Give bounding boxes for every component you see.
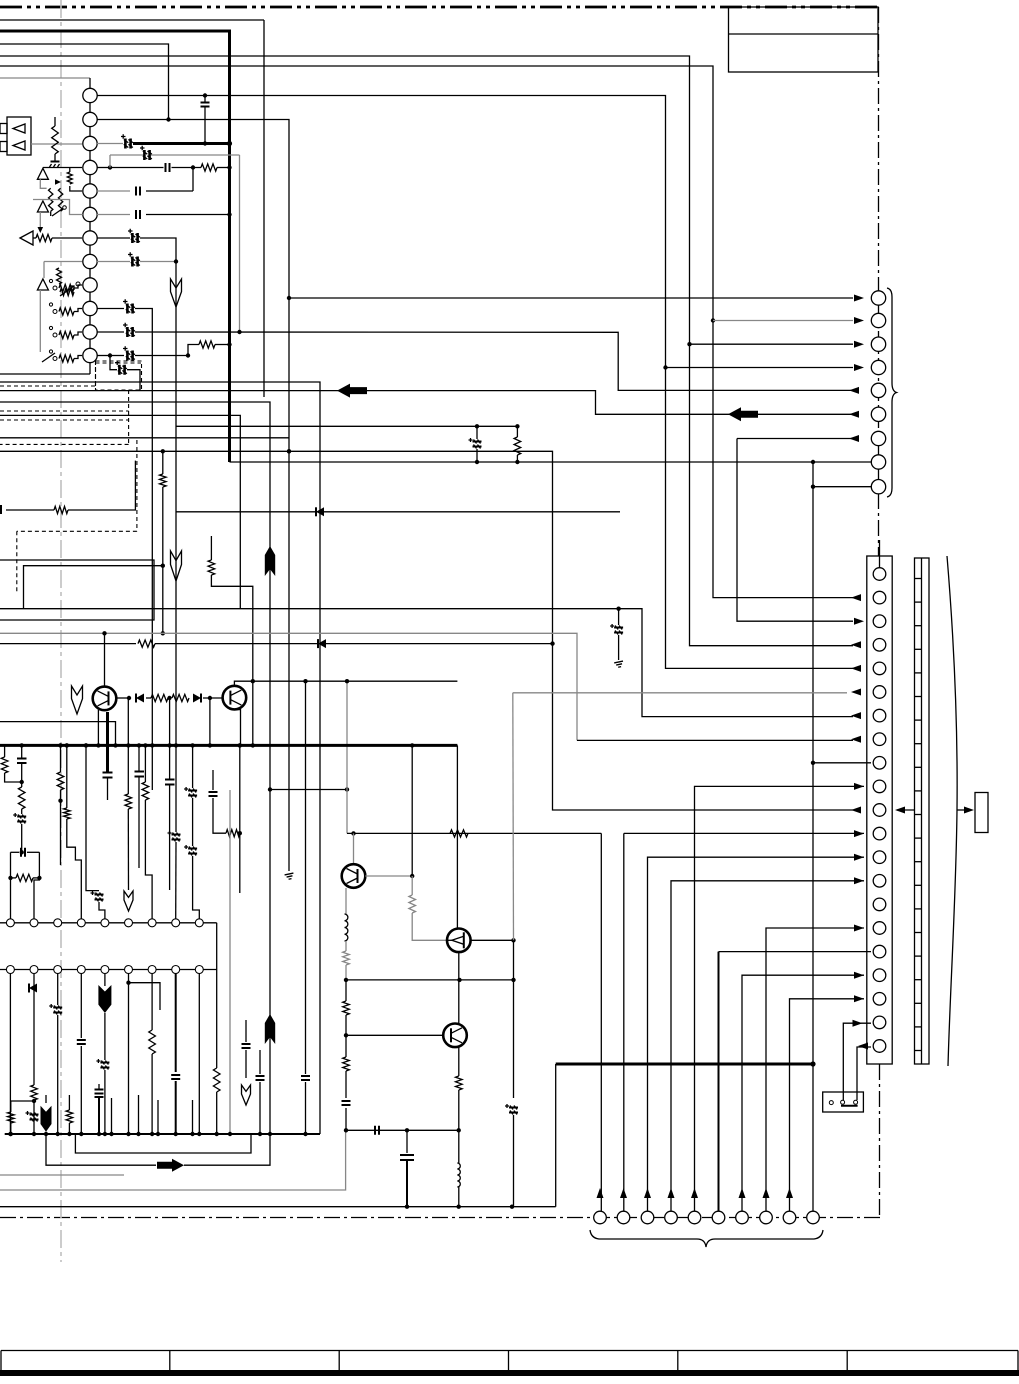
wire CN1 pin3 gray (97, 143, 123, 145)
connector CN2 pin1 (873, 568, 886, 581)
wire (33, 877, 39, 879)
wire to IC pin4 (67, 819, 82, 919)
capacitor C14 electrolytic (618, 609, 620, 625)
resistor R4 (49, 188, 53, 211)
flow arrow up A2 (265, 1014, 275, 1044)
border frame right lower dash-dot (879, 1064, 881, 1218)
wire (169, 785, 171, 891)
wiper gray T3 down (39, 212, 41, 229)
resistor R18 (57, 772, 64, 790)
wire arrow to K1 (957, 809, 966, 811)
resistor R30 (343, 1001, 350, 1015)
wire (33, 985, 35, 1085)
capacitor C36 (375, 1126, 379, 1135)
capacitor C27 electrolytic (96, 1059, 109, 1070)
connector CN2 pin19 (873, 993, 886, 1006)
wire net-C to pin2 (0, 44, 169, 120)
arrowhead up (668, 1188, 675, 1198)
wire (21, 809, 23, 814)
headphone jack J1 (0, 117, 82, 155)
wire (151, 1054, 153, 1134)
wire x513 vertical (513, 940, 515, 1098)
wire (68, 1095, 70, 1110)
wire y721 (0, 722, 116, 746)
switch wiper SW1 (42, 353, 55, 362)
wire y510 corner up (68, 461, 135, 510)
boundary dashed box small (96, 361, 142, 390)
diode D5 (318, 639, 326, 648)
resistor R34 (138, 640, 155, 647)
wire (4, 745, 6, 757)
wire U1 pin6 down (128, 974, 130, 983)
wire gray y1175 (0, 1174, 124, 1176)
wire (305, 1082, 307, 1134)
wire y510 (6, 509, 54, 511)
wire CN1 pin11 (97, 331, 124, 333)
transistor Q1 (93, 687, 117, 711)
centerline dash-dot gray (60, 0, 62, 1262)
wire CN1 pin7 (97, 237, 130, 239)
capacitor C23 electrolytic (184, 845, 197, 856)
wire to Q4 base (412, 913, 447, 940)
resistor R15 (1, 757, 8, 773)
wire x158 (157, 1100, 159, 1134)
wire Q1 emitter thick (106, 712, 109, 772)
capacitor C35 electrolytic (505, 1104, 518, 1115)
resistor R35 (66, 1110, 73, 1123)
arrowhead up (620, 1188, 627, 1198)
wire x813 vertical (812, 462, 814, 1064)
switch row 2 (53, 310, 57, 314)
wire (175, 745, 177, 832)
wire (104, 1070, 106, 1134)
wire to CN2 pin12 (624, 832, 864, 834)
IC U1 bottom pin7 (148, 966, 156, 974)
IC U1 top pin2 (30, 919, 38, 927)
diode D4 (316, 507, 324, 516)
flow arrow down A8 (41, 1106, 52, 1132)
wire gray x230 (229, 790, 231, 1134)
wire (476, 449, 478, 462)
wire CN5 pin7 to CN2 pin18 (742, 975, 864, 1211)
wire to CN3 pin1 (289, 297, 853, 299)
wire Q4 to x513 (471, 939, 514, 941)
capacitor C22 electrolytic (168, 831, 181, 842)
connector CN5 pin8 (760, 1211, 773, 1224)
capacitor C20 electrolytic (91, 891, 104, 902)
wire CN1 pin10 (97, 308, 124, 310)
wire CN3 pin7 (737, 438, 853, 440)
connector CN2 pin7 (873, 709, 886, 722)
diode D3 (29, 984, 37, 993)
jumper block JP1 (823, 1092, 864, 1112)
ground bus y1134 (5, 1133, 320, 1135)
wire y560 y620 loop (0, 560, 154, 620)
inductor L2 (457, 1163, 460, 1187)
wire (21, 824, 23, 852)
wire col x128 (127, 698, 129, 794)
wire JP1 to CN2 pin21 (857, 1047, 871, 1100)
flow arrow up A1 (265, 546, 275, 576)
arrowhead up (644, 1188, 651, 1198)
arrowhead up (739, 1188, 746, 1198)
wire (33, 237, 36, 239)
wire y979 (346, 979, 514, 981)
wire net-A horizontal (0, 19, 264, 21)
wire y426 (176, 425, 517, 427)
connector CN3 pin9 (871, 480, 885, 494)
transistor Q5 (443, 1024, 467, 1048)
wire y382 to x320 vertical (0, 382, 320, 1134)
pot P2 (60, 286, 74, 296)
wire CN5 pin6 to CN2 pin17 thick (718, 952, 720, 1211)
wire to CN2 pin9 (813, 762, 871, 764)
capacitor C13 (0, 505, 2, 514)
wire CN5 pin9 to CN2 pin19 (790, 999, 865, 1211)
arrowhead right (964, 807, 974, 814)
wire CN1 pin8 gray (97, 261, 130, 263)
IC U1 bottom pin2 (30, 966, 38, 974)
connector CN3 pin7 (871, 431, 885, 445)
arrowhead up (691, 1188, 698, 1198)
ground G3 (285, 873, 295, 880)
border frame top dash-dot (0, 6, 879, 9)
connector CN3 pin3 (871, 337, 885, 351)
wire (86, 745, 99, 890)
IC U1 top pin8 (172, 919, 180, 927)
connector CN1 bottom lead (0, 373, 90, 375)
wire x623 bottom pin2 (623, 833, 625, 1211)
wire Q5 base (346, 1034, 443, 1036)
capacitor C25 electrolytic (49, 1004, 62, 1015)
IC U1 bottom pin9 (195, 966, 203, 974)
capacitor C17 electrolytic (13, 813, 26, 824)
resistor R8 (57, 268, 62, 284)
IC U1 top pin4 (77, 919, 85, 927)
arrowhead left (849, 435, 859, 442)
wire pin10 col (151, 745, 153, 790)
wire col x192 (192, 745, 194, 788)
connector CN5 pin1 (594, 1211, 607, 1224)
capacitor C11 electrolytic (123, 346, 135, 360)
capacitor C34 (342, 1101, 351, 1105)
wire y390 to CN3 pin6 (0, 391, 853, 415)
connector CN1 pin12 (83, 348, 97, 362)
wire to CN3 pin3 (690, 343, 854, 345)
connector CN5 pin2 (617, 1211, 630, 1224)
wire CN1 pin4 (97, 167, 110, 169)
arrowhead left (849, 411, 859, 418)
title block (729, 7, 879, 72)
resistor R23 (149, 1030, 156, 1054)
wire to IC pin5 (99, 902, 105, 919)
resistor R36 (226, 830, 240, 837)
connector CN1 pin6 (83, 207, 97, 221)
wire U1 pin2 down (33, 974, 35, 986)
wire U1 pin7 down (151, 974, 153, 1031)
wire (516, 455, 518, 462)
arrowhead right (854, 317, 864, 324)
wire (66, 745, 68, 808)
connector CN3 pin5 (871, 383, 885, 397)
wire T4 to switch (39, 290, 41, 352)
connector CN5 pin10 (807, 1211, 820, 1224)
wire (60, 790, 62, 865)
wire (513, 1115, 515, 1207)
wire CN1 pin1 to CN2 pin5 (97, 96, 853, 669)
wire (345, 941, 347, 951)
resistor R17 (16, 874, 33, 881)
wiper gray T2 (40, 179, 46, 188)
IC U1 bottom pin6 (125, 966, 133, 974)
connector CN2 pin15 (873, 898, 886, 911)
wire to S7 (46, 1134, 156, 1165)
connector CN3 pin1 (871, 291, 885, 305)
wire to IC pin1 (10, 852, 12, 919)
capacitor C8 electrolytic (128, 252, 140, 266)
arrowhead up (597, 1188, 604, 1198)
wire (213, 798, 226, 833)
wire U1 pin9 down (198, 974, 200, 1135)
capacitor C4 (140, 146, 152, 160)
connector CN2 pin13 (873, 851, 886, 864)
wire (60, 745, 62, 772)
capacitor C19 (103, 773, 113, 778)
arrowhead left (851, 736, 861, 743)
wire to CN3 pin9 (813, 486, 871, 488)
connector CN2 pin11 (873, 804, 886, 817)
capacitor C28 (171, 1075, 180, 1079)
wire x737 to CN2 pin3 (737, 439, 853, 622)
capacitor C3 (166, 163, 170, 172)
resistor R32 (456, 1076, 463, 1090)
connector CN2 pin8 (873, 733, 886, 746)
wire R6 top (69, 168, 71, 173)
switch row 1 (53, 286, 57, 290)
wire branch (129, 983, 161, 1010)
wire pin5 to x193 (146, 190, 193, 192)
connector CN3 pin6 (871, 407, 885, 421)
arrowhead right (854, 341, 864, 348)
wire net-E to CN2 pin2 (0, 66, 853, 598)
resistor R31 (343, 1057, 350, 1071)
wire Q5 emitter (458, 1047, 460, 1076)
connector CN2 pin17 (873, 945, 886, 958)
resistor R25 (31, 1085, 38, 1100)
wire (33, 1100, 35, 1134)
connector CN1 pin8 (83, 254, 97, 268)
connector CN3 pin8 (871, 455, 885, 469)
connector CN2 pin18 (873, 969, 886, 982)
wire Q4 emitter (458, 952, 460, 1023)
resistor R5 (58, 188, 62, 211)
IC U1 bottom pin8 (172, 966, 180, 974)
wire (216, 1092, 218, 1134)
transducer T3 triangle (37, 201, 48, 212)
resistor R27 (450, 830, 468, 837)
ribbon connector CN4 (915, 558, 930, 1064)
arrowhead right (854, 830, 864, 837)
wire (43, 262, 45, 279)
connector K1 small (975, 793, 988, 833)
resistor R1 (201, 164, 217, 171)
wire R11 top (162, 451, 164, 474)
wire col x213 (212, 770, 214, 790)
arrowhead right (853, 1020, 863, 1027)
connector CN1 pin9 (83, 278, 97, 292)
wire JP1 to CN2 pin20 (843, 1023, 871, 1100)
inductor L1 (345, 914, 348, 941)
arrowhead right (854, 925, 864, 932)
wire to pin7 (52, 237, 82, 239)
capacitor C23a electrolytic (184, 787, 197, 798)
wire junction x193 (192, 168, 194, 192)
wire pin7 vertical x176 (140, 238, 176, 745)
wire y511 (176, 511, 620, 513)
switch row 4 (53, 357, 57, 361)
flow arrow hollow down F2 (171, 551, 182, 581)
arrowhead up (763, 1188, 770, 1198)
wire (345, 965, 347, 980)
connector CN2 pin4 (873, 639, 886, 652)
IC U1 top pin5 (101, 919, 109, 927)
resistor R24 (213, 1068, 220, 1092)
wire to CN3 pin4 (666, 367, 854, 369)
wire y451 to CN2 pin11 (0, 451, 853, 810)
capacitor C9 electrolytic (123, 299, 135, 313)
connector CN2 pin16 (873, 922, 886, 935)
wire pin4 feed (43, 167, 82, 169)
wire CN1 pin6 gray (97, 214, 130, 216)
resistor R7 (36, 234, 52, 241)
capacitor C7 electrolytic (128, 229, 140, 243)
connector CN2 pin12 (873, 827, 886, 840)
wire to IC pin7 (145, 800, 152, 919)
connector CN5 pin9 (783, 1211, 796, 1224)
wire branch R2 (188, 345, 199, 356)
wire (175, 1081, 177, 1134)
wire to C12 (110, 356, 117, 370)
connector CN5 pin6 (712, 1211, 725, 1224)
wire (345, 1071, 347, 1098)
resistor R16 (18, 787, 25, 809)
connector CN1 pin5 (83, 184, 97, 198)
flow arrow hollow F5 (242, 1085, 251, 1105)
wire R11 bottom (162, 487, 164, 633)
wire (345, 1035, 347, 1057)
connector CN2 pin5 (873, 662, 886, 675)
wire col x239 (239, 745, 241, 893)
wire x138 (138, 1095, 140, 1134)
capacitor C26 (77, 1040, 86, 1044)
arrowhead right (854, 854, 864, 861)
wire (259, 1050, 261, 1074)
wire col x145 (144, 745, 146, 782)
wire gray x347 (346, 681, 348, 833)
wire Q2 emitter (234, 710, 240, 746)
shield dashed lines (0, 363, 141, 592)
wire gray y199 (33, 200, 83, 215)
wire y415 to x240 vertical (0, 415, 240, 608)
resistor R12 lead (516, 426, 518, 437)
wire gray y1190 (0, 1130, 346, 1190)
transistor Q2 (223, 686, 247, 710)
wire (345, 980, 347, 1001)
wire net-D to CN2 pin4 (0, 56, 853, 646)
capacitor C32 (301, 1076, 310, 1080)
wire (104, 1013, 106, 1060)
transducer T4 triangle (37, 279, 48, 290)
wire y402 to x270 vertical (0, 402, 270, 1134)
arrowhead right (854, 995, 864, 1002)
wire net-A vertical x264 (263, 20, 265, 397)
wire R6 to pin5 (70, 186, 82, 191)
capacitor C16 (17, 759, 27, 764)
resistor R6 (67, 172, 72, 184)
flow arrow big left A3 (337, 384, 367, 398)
connector CN2 pin3 (873, 615, 886, 628)
capacitor C6 (136, 210, 140, 219)
wire CN5 pin5 to CN2 pin10 (695, 786, 865, 1211)
connector CN5 pin4 (665, 1211, 678, 1224)
capacitor C33 (95, 1090, 104, 1098)
wire U1 pin8 thick (175, 974, 177, 1073)
wire (68, 1123, 70, 1134)
resistor R21 (125, 794, 132, 809)
wire (57, 1015, 59, 1134)
wire gray y692 to CN2 pin6 (513, 692, 847, 694)
wire Q3 emitter (345, 888, 347, 914)
wire bus to Q4 (456, 745, 458, 928)
IC U1 top pin3 (54, 919, 62, 927)
wire (406, 1130, 408, 1153)
wire Q1 left lead (97, 710, 99, 745)
wire to IC pin2 (34, 852, 39, 919)
wire y789 (270, 789, 347, 791)
connector CN2 pin21 (873, 1040, 886, 1053)
wire x211 (210, 536, 212, 560)
capacitor C15 electrolytic (476, 426, 478, 439)
wire CN5 pin3 to CN2 pin13 (648, 857, 865, 1211)
wire U1 pin1 down (9, 974, 11, 1135)
wire pin6 to bus (146, 214, 230, 216)
wire x601 bottom pin1 (600, 833, 602, 1211)
resistor R22 (142, 782, 149, 800)
connector CN1 pin2 (83, 112, 97, 126)
power bus thick y1064 (556, 1063, 814, 1066)
wire (138, 777, 140, 869)
wire col x139 (138, 745, 140, 771)
resistor R19 (64, 808, 71, 819)
connector CN1 pin10 (83, 301, 97, 315)
IC U1 bottom pin3 (54, 966, 62, 974)
arrowhead left (851, 712, 861, 719)
resistor R26 (8, 1112, 15, 1123)
wire CN1 pin12 (97, 355, 110, 357)
connector CN3 pin2 (871, 313, 885, 327)
IC U1 body (0, 923, 217, 970)
arrowhead right (854, 783, 864, 790)
capacitor C10 electrolytic (123, 323, 135, 337)
arrowhead right (854, 618, 864, 625)
flow arrow right A7 (157, 1159, 184, 1172)
wire gray x513 upper (512, 693, 515, 941)
connector CN2 body (867, 556, 892, 1064)
wire C14 to ground (618, 635, 620, 660)
wire U1 right down (216, 970, 218, 1069)
wire (5, 773, 22, 782)
diode D2 (193, 694, 201, 703)
